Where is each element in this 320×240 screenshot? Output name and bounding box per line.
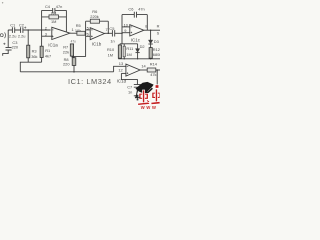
svg-text:www: www [140, 105, 158, 110]
watermark cap logo [135, 82, 153, 97]
capacitor C1 [12, 27, 14, 33]
resistor R6 220k feedback [86, 20, 109, 22]
wire IC1b output [104, 32, 112, 34]
watermark char 2 [151, 85, 160, 105]
svg-text:C5: C5 [109, 26, 114, 31]
svg-text:6: 6 [87, 31, 89, 36]
svg-text:9: 9 [124, 28, 126, 33]
svg-text:R4: R4 [51, 10, 57, 15]
resistor R1 4k7 [40, 46, 43, 57]
svg-text:R10: R10 [107, 47, 115, 52]
svg-text:IC1: LM324: IC1: LM324 [68, 77, 112, 86]
svg-text:S: S [157, 30, 160, 35]
op-amp IC1a [52, 27, 70, 39]
svg-text:R11: R11 [126, 46, 133, 51]
wire C3 to ground [3, 54, 9, 56]
wire bottom left [20, 62, 41, 72]
diode D3 [150, 29, 152, 31]
plus C3 [3, 43, 5, 45]
svg-text:47u: 47u [71, 40, 77, 44]
wire node to R10/R11/D2 [120, 43, 138, 45]
svg-text:C2: C2 [19, 22, 24, 27]
wire mic vertical [7, 30, 9, 47]
wire rail jog to IC1d [114, 66, 126, 72]
svg-text:47k: 47k [150, 72, 156, 77]
capacitor C2 [21, 27, 23, 33]
wire IC1c output [144, 29, 160, 31]
svg-text:5: 5 [87, 25, 89, 30]
svg-text:1M: 1M [126, 52, 131, 57]
resistor R10 1M [119, 44, 121, 45]
svg-text:2: 2 [45, 26, 47, 31]
svg-text:47n: 47n [138, 6, 145, 11]
svg-text:R14: R14 [150, 62, 158, 67]
svg-text:220: 220 [63, 61, 70, 66]
ground cross over watermark [135, 95, 141, 101]
svg-text:R1: R1 [45, 48, 50, 53]
svg-text:IC1b: IC1b [92, 41, 102, 46]
wire IC1a output [70, 32, 77, 34]
node R3 top [27, 29, 29, 31]
wire feedback left vertical [41, 10, 43, 30]
wire to R8 [74, 57, 86, 58]
wire pin12 to C7 [121, 73, 137, 84]
diode D2 [137, 44, 139, 49]
svg-text:8: 8 [145, 24, 147, 29]
ground [134, 96, 141, 100]
svg-text:D3: D3 [154, 39, 159, 44]
svg-text:IC1c: IC1c [131, 38, 141, 43]
svg-text:1n: 1n [128, 90, 132, 95]
resistor R11 1M [123, 44, 125, 46]
resistor R12 680k [149, 48, 152, 59]
wire input top [8, 29, 50, 31]
svg-text:IC1a: IC1a [48, 43, 58, 48]
wire pin3 stub [42, 35, 52, 37]
wire down to R1 [41, 30, 43, 46]
svg-text:R3: R3 [32, 48, 37, 53]
wire rail right [118, 58, 160, 60]
svg-text:47n: 47n [56, 4, 63, 9]
wire down to R3 [27, 30, 29, 45]
resistor R8 220 [72, 58, 76, 66]
svg-text:R12: R12 [153, 47, 160, 52]
svg-text:D2: D2 [140, 44, 145, 49]
op-amp IC1d [126, 64, 140, 76]
resistor R4 1M [42, 16, 67, 18]
svg-text:680k: 680k [153, 52, 160, 57]
op-amp IC1c [130, 25, 144, 36]
svg-text:1n: 1n [110, 39, 114, 44]
svg-text:4k7: 4k7 [45, 53, 51, 58]
wire C6 loop left vertical [121, 15, 123, 44]
wire IC1b left vertical [85, 21, 87, 56]
resistor R14 47k [147, 68, 156, 72]
svg-text:R: R [157, 23, 160, 28]
watermark char 1 [138, 90, 150, 105]
op-amp IC1b [90, 28, 104, 40]
wire IC1d output [140, 69, 147, 71]
svg-text:1: 1 [72, 27, 74, 32]
node R5 out [85, 32, 87, 34]
capacitor C5 1n [112, 30, 114, 36]
node R1 top [41, 29, 43, 31]
resistor R3 36k [27, 45, 30, 58]
svg-text:1M: 1M [108, 53, 113, 58]
svg-text:220k: 220k [90, 14, 98, 19]
capacitor C7 1n [134, 85, 141, 88]
wire feedback right vertical [65, 10, 67, 31]
svg-text:2.2u: 2.2u [18, 34, 26, 39]
resistor R7 22k [70, 44, 73, 56]
svg-text:1M: 1M [51, 19, 56, 24]
svg-text:C6: C6 [128, 6, 133, 11]
capacitor C3 [6, 47, 12, 49]
svg-text:220: 220 [12, 45, 19, 50]
svg-text:2.2u: 2.2u [9, 34, 17, 39]
microphone MIC1 [0, 34, 3, 37]
svg-text:C1: C1 [10, 22, 15, 27]
svg-text:13: 13 [119, 61, 123, 66]
svg-text:7: 7 [106, 27, 108, 32]
speck top-left [2, 2, 3, 3]
svg-text:36k: 36k [31, 54, 37, 59]
svg-text:C4: C4 [45, 4, 51, 9]
wire ground rail [20, 71, 113, 73]
svg-text:22k: 22k [63, 50, 69, 55]
node IC1c input [121, 33, 123, 35]
svg-text:12: 12 [118, 68, 122, 73]
